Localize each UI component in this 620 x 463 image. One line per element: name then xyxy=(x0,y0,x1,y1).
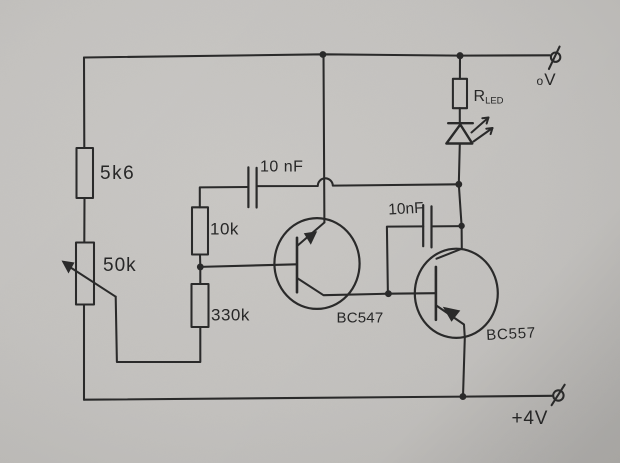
svg-text:5k6: 5k6 xyxy=(100,163,135,184)
Q1 collector/emitter upper lead xyxy=(298,223,325,246)
wire left rail down to R1 xyxy=(83,58,85,149)
wire R_LED to LED xyxy=(459,108,461,123)
Q2 base bar xyxy=(435,267,438,320)
resistor R_LED xyxy=(453,79,467,108)
transistor Q1 BC547 body xyxy=(274,218,359,309)
svg-text:10nF: 10nF xyxy=(388,200,424,219)
node top rail / Q1 collector branch xyxy=(321,52,326,57)
Q1 base bar xyxy=(296,238,299,292)
wire 10k top to capacitor C1 xyxy=(200,187,249,207)
svg-text:10 nF: 10 nF xyxy=(260,159,303,176)
resistor R4 330k xyxy=(192,284,209,327)
svg-text:+4V: +4V xyxy=(512,408,549,429)
transistor Q2 BC557 body xyxy=(415,249,498,338)
potentiometer wiper arrow xyxy=(62,261,116,297)
Q2 emitter lead with arrow xyxy=(436,306,465,397)
wire node B to C2 node to Q2 collector xyxy=(459,184,462,248)
wire 10k bottom to node A xyxy=(199,255,201,267)
wire wiper to 330k bottom xyxy=(116,297,201,362)
node Q1 emitter / C2 branch xyxy=(386,291,391,296)
node B (LED / C1 wire junction) xyxy=(456,182,461,187)
Q2 collector lead xyxy=(437,249,462,259)
terminal 0V xyxy=(549,47,560,69)
wire Q1 lower lead to Q2 base xyxy=(298,279,436,296)
capacitor C2 10nF xyxy=(423,205,431,247)
wire 330k top to node A xyxy=(199,267,201,284)
Q1 arrow (upper lead) xyxy=(304,231,317,245)
node bottom rail / Q2 emitter xyxy=(461,394,466,399)
capacitor C1 10nF xyxy=(248,167,256,207)
wire node to capacitor C2 xyxy=(387,226,423,293)
LED light arrow 2 xyxy=(474,128,493,142)
svg-text:330k: 330k xyxy=(211,306,250,325)
wire top rail to Q1 collector xyxy=(322,54,325,222)
node top rail / LED branch xyxy=(458,53,463,58)
wire LED to node B xyxy=(459,144,460,185)
resistor R3 10k xyxy=(192,207,208,254)
wire rail node to R_LED xyxy=(459,56,461,79)
terminal +4V xyxy=(552,385,565,406)
wire node A to Q1 base xyxy=(200,264,297,267)
resistor R1 5k6 xyxy=(77,148,94,198)
LED D1 cathode bar xyxy=(448,122,473,124)
node right rail / C2 xyxy=(459,224,463,228)
wire top rail 0V xyxy=(84,54,550,57)
potentiometer R2 50k body xyxy=(76,243,94,305)
svg-text:50k: 50k xyxy=(103,255,137,276)
node A (10k/330k/base junction) xyxy=(198,265,203,270)
wire C2 to right rail xyxy=(432,225,462,227)
svg-text:BC557: BC557 xyxy=(486,324,537,344)
svg-text:BC547: BC547 xyxy=(337,310,384,327)
wire R1 to potentiometer xyxy=(83,198,85,243)
LED D1 triangle xyxy=(446,125,472,144)
wire pot bottom to bottom rail xyxy=(83,305,85,400)
Q2 arrow (emitter, pointing to base) xyxy=(443,307,461,322)
LED light arrow 1 xyxy=(472,118,489,133)
wire C1 to right rail with hop over collector wire xyxy=(257,178,459,186)
svg-text:10k: 10k xyxy=(210,220,239,239)
wire bottom rail +4V xyxy=(84,396,553,400)
